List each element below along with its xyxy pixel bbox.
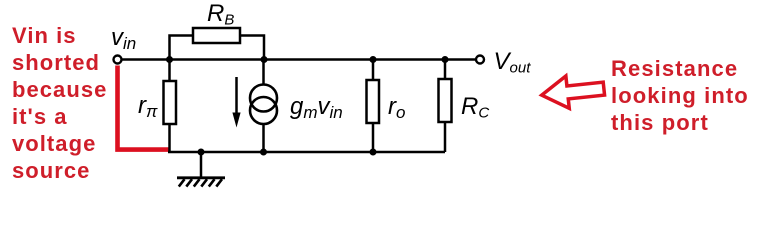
junction: r_o bottom node — [370, 149, 377, 156]
resistor RC (box) — [439, 79, 452, 122]
resistor r_o (box) — [367, 80, 380, 123]
wire: r_pi vertical branch — [168, 60, 171, 153]
junction: RC top node — [442, 56, 449, 63]
wire: top horizontal rail from vin terminal to Vout terminal — [121, 58, 476, 61]
current source gm*vin (two overlapping circles) — [250, 85, 277, 125]
terminal Vout (open circle) — [476, 56, 484, 64]
red annotation arrow pointing left at Vout port — [540, 72, 606, 111]
value label gm*vin — [290, 95, 343, 121]
junction: source bottom node — [260, 149, 267, 156]
wire: r_o vertical branch — [372, 60, 375, 153]
value label r_o — [388, 95, 405, 121]
wire: RB branch risers and horizontal segments — [170, 36, 265, 60]
red annotation text: Vin is shorted because it's a voltage source — [12, 23, 107, 184]
junction: ground stem node — [198, 149, 205, 156]
junction: RB left / r_pi top node — [166, 56, 173, 63]
red annotation text: Resistance looking into this port — [611, 55, 749, 137]
value label RC — [461, 95, 489, 121]
node label Vout — [494, 50, 531, 76]
terminal vin (open circle) — [114, 56, 122, 64]
wire: controlled source vertical branch — [262, 60, 265, 153]
resistor r_pi (box) — [164, 81, 177, 124]
junction: RB right / source top node — [261, 56, 268, 63]
wire: red short from vin node down and along bottom to ground rail — [118, 66, 170, 150]
value label r_pi — [138, 94, 157, 120]
wire: RC vertical branch — [444, 60, 447, 153]
current direction arrow (points down) — [232, 77, 240, 128]
value label RB — [207, 2, 234, 28]
ground — [177, 152, 225, 187]
node label vin — [111, 26, 136, 52]
junction: r_o top node — [370, 56, 377, 63]
resistor RB (box) — [193, 28, 240, 43]
wire: bottom ground rail — [168, 151, 445, 154]
